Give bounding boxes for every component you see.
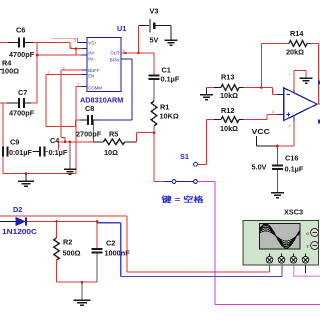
pin numbers U1 bbox=[48, 39, 125, 87]
node battery tap bbox=[137, 52, 140, 55]
ground bbox=[165, 26, 178, 45]
svg-text:0.1µF: 0.1µF bbox=[49, 148, 68, 157]
svg-text:1N1200C: 1N1200C bbox=[2, 227, 38, 236]
ground bbox=[18, 173, 34, 186]
node C2 tap bbox=[96, 220, 99, 223]
svg-text:2: 2 bbox=[272, 110, 274, 114]
svg-text:OUT: OUT bbox=[110, 51, 119, 56]
node OUT junction bbox=[124, 52, 126, 54]
diode D2 bbox=[0, 205, 38, 236]
svg-text:1: 1 bbox=[70, 45, 72, 49]
wire red to scope bbox=[0, 216, 270, 272]
resistor R5 bbox=[94, 130, 137, 158]
wire bbox=[136, 133, 154, 142]
op-amp chip U1 AD8310ARM bbox=[80, 24, 126, 105]
svg-text:6: 6 bbox=[63, 67, 65, 71]
svg-text:C1: C1 bbox=[162, 66, 171, 75]
svg-text:5.0V: 5.0V bbox=[252, 163, 267, 172]
resistor R1 bbox=[151, 101, 179, 126]
svg-text:20kΩ: 20kΩ bbox=[286, 48, 304, 57]
resistor R4 (off-screen, labels only) bbox=[0, 59, 19, 76]
power VCC bbox=[252, 127, 294, 172]
node R5 tap bbox=[153, 131, 156, 134]
wire pink to scope bbox=[294, 263, 320, 276]
wire BFIN loop bbox=[100, 59, 132, 120]
svg-text:BFIN: BFIN bbox=[110, 58, 120, 63]
wire bbox=[197, 120, 206, 165]
capacitor C1 bbox=[149, 53, 180, 101]
ground bbox=[64, 141, 76, 175]
svg-text:R13: R13 bbox=[221, 73, 234, 82]
wire bbox=[61, 70, 87, 142]
svg-text:VS+: VS+ bbox=[88, 41, 97, 46]
wire bbox=[27, 221, 97, 223]
svg-text:U1: U1 bbox=[117, 24, 126, 33]
ground bbox=[74, 282, 91, 305]
wire VS+ stub bbox=[78, 41, 87, 43]
svg-text:2700pF: 2700pF bbox=[76, 130, 102, 139]
wire bbox=[76, 87, 87, 174]
svg-text:R1: R1 bbox=[160, 103, 169, 112]
wire bbox=[0, 43, 70, 49]
svg-text:10kΩ: 10kΩ bbox=[220, 91, 238, 100]
svg-text:C9: C9 bbox=[10, 138, 19, 147]
ground bbox=[271, 193, 284, 198]
svg-text:3: 3 bbox=[272, 90, 274, 94]
op-amp U2 bbox=[272, 71, 320, 146]
svg-text:4: 4 bbox=[289, 124, 291, 128]
node ground tap bbox=[81, 281, 84, 284]
node ground tap bbox=[25, 172, 28, 175]
svg-text:100Ω: 100Ω bbox=[1, 67, 19, 76]
ground bbox=[200, 88, 213, 100]
svg-text:COMM: COMM bbox=[88, 86, 102, 91]
svg-text:4700pF: 4700pF bbox=[9, 50, 35, 59]
capacitor C2 bbox=[92, 222, 131, 283]
svg-text:C6: C6 bbox=[16, 26, 25, 35]
svg-text:R14: R14 bbox=[290, 29, 304, 38]
wire black stub terminal 4 bbox=[305, 263, 307, 273]
svg-text:R2: R2 bbox=[63, 238, 72, 247]
wire bbox=[70, 49, 87, 55]
wire bbox=[138, 26, 140, 53]
svg-text:R12: R12 bbox=[221, 106, 234, 115]
svg-text:IN+: IN+ bbox=[88, 51, 95, 56]
capacitor C8 bbox=[76, 104, 102, 139]
svg-text:键 = 空格: 键 = 空格 bbox=[160, 195, 204, 204]
power V3 battery bbox=[139, 7, 171, 45]
svg-text:IN−: IN− bbox=[88, 57, 95, 62]
wire bbox=[272, 88, 277, 95]
oscilloscope XSC3 bbox=[243, 208, 319, 266]
wire bbox=[3, 103, 76, 173]
svg-text:10KΩ: 10KΩ bbox=[160, 112, 179, 121]
wire blue to scope bbox=[97, 223, 282, 277]
svg-text:BUFF: BUFF bbox=[88, 68, 100, 73]
svg-text:C4: C4 bbox=[50, 136, 60, 145]
node R2 tap bbox=[55, 220, 58, 223]
resistor R2 bbox=[54, 222, 81, 283]
svg-text:500Ω: 500Ω bbox=[63, 249, 81, 258]
wire bbox=[37, 43, 87, 104]
svg-text:0.01µF: 0.01µF bbox=[9, 148, 32, 157]
wire bbox=[52, 38, 78, 42]
node IN+ junction bbox=[75, 47, 78, 50]
wire bbox=[57, 281, 98, 283]
capacitor C4 bbox=[33, 136, 68, 157]
svg-text:5: 5 bbox=[74, 39, 76, 43]
svg-text:C2: C2 bbox=[106, 239, 115, 248]
capacitor C6 bbox=[8, 26, 35, 60]
wire bbox=[46, 75, 87, 127]
wire pin stubs bbox=[82, 49, 87, 87]
svg-text:XSC3: XSC3 bbox=[284, 208, 303, 217]
svg-text:8: 8 bbox=[123, 49, 125, 53]
svg-text:C16: C16 bbox=[285, 154, 298, 163]
resistor R12 bbox=[207, 106, 278, 133]
svg-text:0.1µF: 0.1µF bbox=[285, 165, 304, 174]
capacitor C16 bbox=[272, 146, 304, 193]
resistor R14 bbox=[261, 29, 318, 104]
svg-text:10kΩ: 10kΩ bbox=[220, 124, 238, 133]
svg-text:EN: EN bbox=[88, 74, 94, 79]
wire bbox=[121, 52, 154, 54]
svg-text:4700pF: 4700pF bbox=[9, 109, 35, 118]
svg-text:G: G bbox=[306, 231, 309, 236]
wire bbox=[153, 126, 155, 182]
node BUFF tap bbox=[64, 141, 67, 144]
svg-text:7: 7 bbox=[289, 73, 291, 77]
svg-text:R5: R5 bbox=[109, 130, 118, 139]
capacitor C9 bbox=[3, 138, 33, 158]
svg-text:V3: V3 bbox=[150, 7, 159, 16]
svg-text:2: 2 bbox=[77, 83, 79, 87]
svg-text:C7: C7 bbox=[18, 88, 27, 97]
svg-text:VCC: VCC bbox=[252, 127, 271, 136]
svg-text:7: 7 bbox=[48, 71, 50, 75]
switch S1 bbox=[154, 152, 204, 204]
ground bbox=[300, 71, 313, 84]
svg-text:S1: S1 bbox=[180, 152, 189, 161]
wire magenta to scope bbox=[197, 182, 320, 305]
resistor R13 bbox=[207, 73, 273, 101]
svg-text:10Ω: 10Ω bbox=[104, 148, 118, 157]
svg-text:C8: C8 bbox=[85, 104, 94, 113]
svg-text:5V: 5V bbox=[150, 36, 159, 45]
node IN- junction bbox=[36, 54, 39, 57]
svg-text:0.1µF: 0.1µF bbox=[161, 75, 180, 84]
node R14 junction bbox=[260, 86, 263, 89]
svg-text:D2: D2 bbox=[13, 205, 22, 214]
capacitor C7 bbox=[0, 88, 37, 118]
wire bbox=[59, 120, 94, 142]
